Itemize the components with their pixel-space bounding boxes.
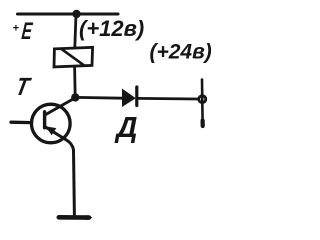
transistor T collector lead bbox=[46, 98, 76, 115]
terminal +24V circle bbox=[199, 96, 206, 103]
transistor T base bar bbox=[43, 112, 46, 128]
transistor T emitter lead bbox=[46, 127, 74, 150]
wire emitter to ground bbox=[72, 150, 76, 216]
svg-text:+: + bbox=[13, 23, 20, 35]
transistor T base wire bbox=[11, 121, 32, 125]
svg-text:E: E bbox=[20, 19, 33, 45]
ground bbox=[59, 215, 89, 220]
node collector junction bbox=[71, 93, 79, 101]
svg-text:(+24в): (+24в) bbox=[150, 41, 212, 64]
node junction at top rail bbox=[72, 10, 80, 18]
transistor T emitter arrow (PNP) bbox=[46, 126, 57, 135]
svg-text:(+12в): (+12в) bbox=[79, 16, 144, 41]
wire collector node to diode bbox=[75, 96, 122, 100]
wire terminal vertical bbox=[201, 80, 204, 123]
wire diode to +24V terminal bbox=[137, 97, 198, 100]
diode D anode triangle bbox=[122, 89, 136, 108]
svg-text:T: T bbox=[13, 72, 33, 100]
relay coil K1 bbox=[54, 47, 93, 67]
wire junction to relay coil bbox=[75, 14, 76, 48]
wire +12V top rail bbox=[18, 13, 119, 16]
svg-text:Д: Д bbox=[114, 112, 138, 144]
transistor T circle bbox=[32, 104, 71, 143]
wire relay coil to collector node bbox=[73, 67, 76, 98]
diode D cathode bar bbox=[135, 87, 138, 106]
